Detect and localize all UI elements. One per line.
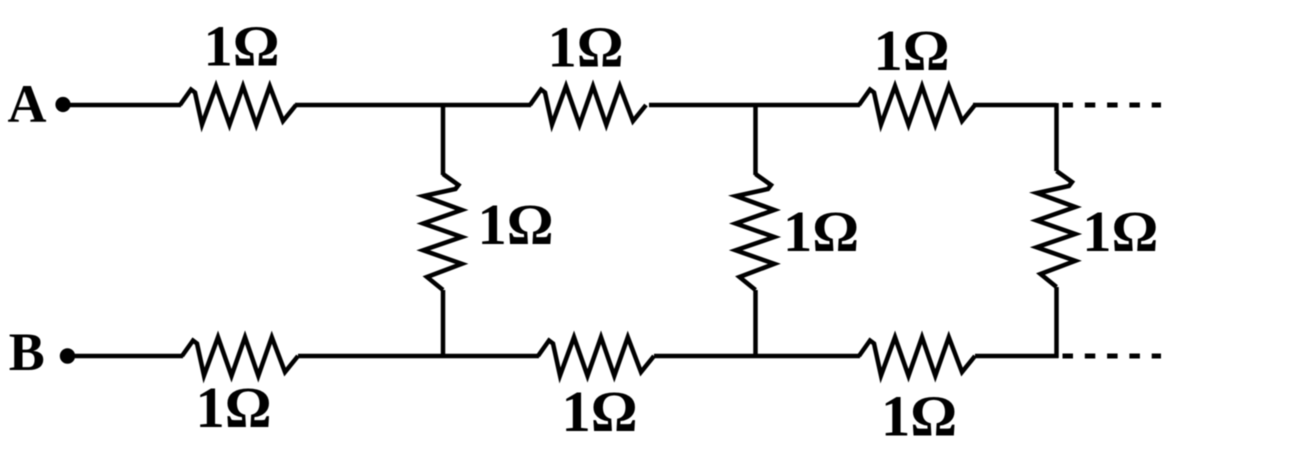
svg-text:1Ω: 1Ω: [562, 379, 638, 444]
svg-text:B: B: [9, 322, 45, 382]
resistor R6 (bottom right): [859, 337, 975, 376]
svg-text:1Ω: 1Ω: [196, 375, 272, 440]
svg-text:A: A: [8, 74, 47, 134]
wire top segment 2: [649, 103, 860, 108]
resistor R8 (shunt 2, vertical at x=755.5): [736, 174, 775, 290]
svg-text:1Ω: 1Ω: [478, 192, 554, 257]
wire shunt 1 lower vertical: [441, 290, 446, 358]
wire shunt 1 upper vertical: [441, 103, 446, 175]
svg-text:1Ω: 1Ω: [204, 14, 280, 79]
dashed continuation (bottom): [1063, 354, 1162, 359]
svg-text:1Ω: 1Ω: [881, 384, 957, 449]
wire top segment 1: [295, 103, 531, 108]
resistor R3 (top right): [859, 86, 975, 125]
resistor R1 (top left): [180, 86, 296, 125]
svg-text:1Ω: 1Ω: [548, 15, 624, 80]
terminal dot A: [55, 97, 70, 112]
resistor R4 (bottom left): [182, 337, 298, 376]
svg-text:1Ω: 1Ω: [874, 18, 950, 83]
dashed continuation (top): [1063, 103, 1162, 108]
wire bottom segment 1: [298, 354, 539, 359]
wire shunt 2 upper vertical: [753, 103, 758, 175]
svg-text:1Ω: 1Ω: [783, 199, 859, 264]
wire bottom segment 2: [654, 354, 860, 359]
resistor R7 (shunt 1, vertical at x=443): [423, 174, 462, 290]
wire shunt 2 lower vertical: [753, 290, 758, 358]
wire right corner vertical (bottom): [1054, 287, 1059, 358]
terminal dot B: [60, 348, 75, 363]
wire A lead: [70, 103, 181, 108]
resistor R2 (top middle): [530, 86, 646, 125]
svg-text:1Ω: 1Ω: [1082, 199, 1158, 264]
wire bottom segment 3 to corner: [975, 354, 1059, 359]
wire right corner vertical (top): [1054, 103, 1059, 171]
wire top segment 3 to corner: [973, 103, 1057, 108]
wire B lead: [75, 354, 183, 359]
resistor R5 (bottom middle): [538, 337, 654, 376]
resistor R9 (shunt 3, vertical at right edge x=1056.5): [1037, 171, 1076, 287]
